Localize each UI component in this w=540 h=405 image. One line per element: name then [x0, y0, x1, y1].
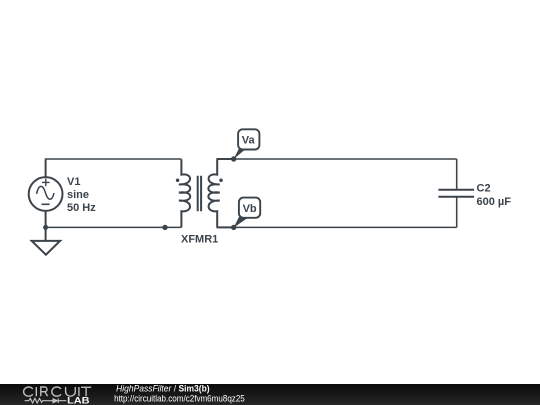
wire C2 leads — [456, 159, 458, 227]
svg-text:600 µF: 600 µF — [477, 196, 512, 208]
voltage source V1 — [29, 177, 63, 211]
capacitor C2 plates — [438, 190, 474, 197]
wire top-left rail — [46, 158, 182, 161]
transformer XFMR1 left winding — [179, 159, 190, 227]
V1 minus sign — [42, 203, 50, 205]
node junction at V1/ground — [43, 225, 48, 230]
probe Va tail — [234, 149, 246, 159]
transformer XFMR1 right winding — [208, 159, 219, 227]
V1 plus sign — [42, 179, 50, 187]
wire bottom-right rail — [217, 226, 457, 228]
wire XFMR1 to node B — [217, 226, 234, 228]
svg-text:sine: sine — [67, 189, 89, 201]
node B junction bottom — [231, 225, 236, 230]
svg-text:C2: C2 — [477, 183, 491, 195]
transformer core — [198, 176, 201, 212]
node junction on bottom rail — [162, 225, 167, 230]
wire V1 bottom stub to ground — [45, 211, 47, 241]
svg-text:Va: Va — [242, 135, 256, 147]
logo CIRCUIT wordmark (hand-drawn thin letters) — [24, 387, 92, 396]
svg-text:Vb: Vb — [243, 203, 257, 215]
svg-text:http://circuitlab.com/c2fvm6mu: http://circuitlab.com/c2fvm6mu8qz25 — [114, 393, 245, 403]
phase dot left — [176, 178, 180, 182]
probe Va box — [238, 129, 259, 149]
wire V1 top stub — [45, 160, 47, 177]
V1 sine symbol — [37, 186, 54, 199]
logo wire with resistor and diode — [25, 398, 67, 403]
probe Vb box — [239, 198, 260, 218]
wire top-right rail — [217, 158, 457, 160]
svg-text:50 Hz: 50 Hz — [67, 202, 96, 214]
svg-text:LAB: LAB — [67, 395, 90, 405]
node A junction top — [231, 156, 236, 161]
svg-text:V1: V1 — [67, 176, 80, 188]
wire bottom-left rail — [46, 226, 182, 228]
svg-text:XFMR1: XFMR1 — [181, 234, 218, 246]
ground — [32, 241, 60, 255]
probe Vb tail — [234, 217, 250, 228]
svg-text:HighPassFilter / Sim3(b): HighPassFilter / Sim3(b) — [116, 383, 210, 393]
wire XFMR1 to node A — [217, 158, 234, 160]
phase dot right — [219, 178, 223, 182]
footer bar — [0, 384, 540, 405]
